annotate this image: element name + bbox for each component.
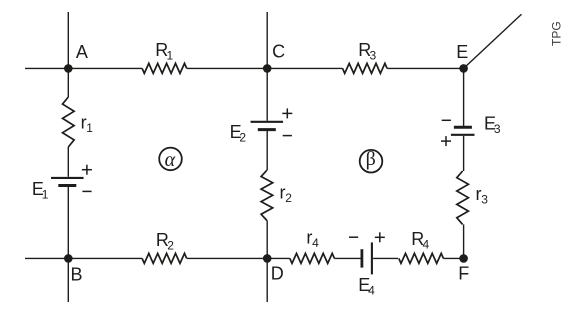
wire A down to r1 <box>67 68 69 97</box>
svg-text:D: D <box>271 263 284 283</box>
wire stub above node A <box>67 12 69 68</box>
svg-text:TPG: TPG <box>549 21 563 46</box>
resistor r1 <box>63 97 75 147</box>
E1 positive terminal sign <box>82 165 92 175</box>
wire D to r4 <box>267 257 290 259</box>
wire E down to battery E3 <box>463 68 465 126</box>
wire stub below node B <box>67 258 69 302</box>
resistor R3 <box>343 63 388 73</box>
node B junction dot <box>64 254 73 263</box>
wire bottom-left stub <box>25 257 68 259</box>
svg-text:R2: R2 <box>156 230 174 253</box>
node A junction dot <box>64 64 73 73</box>
svg-text:E2: E2 <box>230 122 247 145</box>
resistor R4 <box>399 253 444 263</box>
resistor R2 <box>142 253 187 263</box>
battery E1 (long positive plate top, short negative plate bottom) <box>51 178 84 186</box>
node E junction dot <box>459 64 468 73</box>
svg-text:α: α <box>165 149 176 171</box>
svg-text:E1: E1 <box>32 179 49 202</box>
resistor r3 <box>457 171 469 224</box>
svg-text:F: F <box>458 263 469 283</box>
wire C to R3 <box>267 67 342 69</box>
E4 negative terminal sign <box>349 236 358 238</box>
wire E3 to r3 <box>463 136 465 171</box>
battery E3 (short negative plate top, long positive plate bottom) <box>451 127 475 135</box>
wire r2 to D <box>266 221 268 259</box>
svg-text:B: B <box>70 265 82 285</box>
node C junction dot <box>263 64 272 73</box>
E3 negative terminal sign <box>442 119 451 121</box>
node D junction dot <box>263 254 272 263</box>
svg-text:C: C <box>272 42 285 62</box>
wire r3 to F <box>463 224 465 258</box>
svg-text:r4: r4 <box>306 227 319 250</box>
E3 positive terminal sign <box>441 136 451 146</box>
wire R4 to F <box>443 257 463 259</box>
resistor r4 <box>290 253 335 263</box>
E4 positive terminal sign <box>375 232 385 242</box>
loop label beta (mesh II) <box>360 148 383 173</box>
wire R2 to D <box>187 257 268 259</box>
svg-text:r2: r2 <box>280 182 293 205</box>
node F junction dot <box>459 254 468 263</box>
wire r1 to battery E1 <box>67 147 69 177</box>
wire C down to battery E2 <box>266 68 268 120</box>
wire B to R2 <box>68 257 142 259</box>
wire stub below node D <box>266 258 268 302</box>
svg-text:R1: R1 <box>155 40 173 63</box>
wire E2 to r2 <box>266 131 268 171</box>
wire top-left stub <box>25 67 68 69</box>
wire diagonal from E (test-point lead) <box>464 14 522 68</box>
wire E4 to R4 <box>373 257 398 259</box>
svg-text:r3: r3 <box>476 184 489 207</box>
svg-text:E4: E4 <box>358 275 375 298</box>
svg-text:A: A <box>76 42 88 62</box>
svg-text:R4: R4 <box>411 229 429 252</box>
resistor R1 <box>142 63 187 73</box>
wire r4 to battery E4 <box>334 257 360 259</box>
loop label alpha (mesh I) <box>159 148 182 171</box>
svg-text:r1: r1 <box>81 113 94 136</box>
svg-text:β: β <box>366 148 376 170</box>
svg-text:R3: R3 <box>358 40 376 63</box>
wire R1 to C <box>187 67 268 69</box>
battery E2 (long positive plate top, short negative plate bottom) <box>251 122 283 130</box>
E2 positive terminal sign <box>282 108 292 118</box>
resistor r2 <box>261 170 273 220</box>
wire R3 to E <box>387 67 464 69</box>
battery E4 (short negative plate left, long positive plate right) <box>362 242 372 274</box>
svg-text:E3: E3 <box>484 113 501 136</box>
E1 negative terminal sign <box>82 190 91 192</box>
wire A to R1 <box>68 67 142 69</box>
wire E1 to B <box>67 187 69 259</box>
E2 negative terminal sign <box>283 135 292 137</box>
wire stub above node C <box>266 12 268 68</box>
svg-text:E: E <box>456 42 468 62</box>
